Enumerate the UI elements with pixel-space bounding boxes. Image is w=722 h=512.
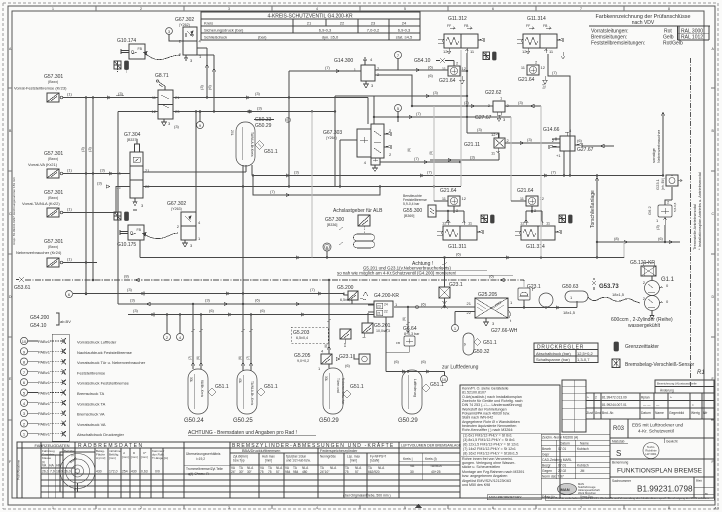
svg-text:(3): (3) bbox=[118, 91, 124, 96]
frame ruler numbers bottom bbox=[52, 506, 670, 510]
svg-text:Prüf-/Abnahme: Prüf-/Abnahme bbox=[17, 459, 21, 480]
wire hatch marks (pipe size) bbox=[191, 227, 410, 332]
svg-text:[mm]: [mm] bbox=[109, 456, 116, 460]
svg-text:Änderung: Änderung bbox=[660, 389, 674, 393]
svg-text:G14.66: G14.66 bbox=[543, 127, 560, 133]
icon silencer 5 bbox=[569, 215, 573, 223]
circled 7 node bbox=[395, 52, 402, 71]
svg-text:dyn. ≥5,0: dyn. ≥5,0 bbox=[322, 35, 339, 40]
svg-text:(3): (3) bbox=[527, 137, 533, 142]
svg-text:PABv1: PABv1 bbox=[38, 360, 51, 365]
frame bottom ruler ticks bbox=[96, 505, 624, 509]
svg-text:G11.312: G11.312 bbox=[448, 16, 467, 22]
wire y242 east bbox=[596, 236, 680, 244]
radbrems columns bbox=[94, 448, 96, 498]
svg-text:Abschaltdruck Druckregler: Abschaltdruck Druckregler bbox=[77, 432, 125, 437]
svg-text:(3): (3) bbox=[464, 100, 470, 105]
svg-text:(7): (7) bbox=[414, 156, 420, 161]
svg-text:5,9-0,4 bar: 5,9-0,4 bar bbox=[403, 202, 420, 206]
svg-text:(Bxxx): (Bxxx) bbox=[48, 245, 58, 249]
svg-text:Gegen: Gegen bbox=[542, 469, 552, 473]
test coupling G10.174 bbox=[117, 38, 145, 59]
svg-text:NLA: NLA bbox=[330, 466, 337, 470]
svg-text:4-Kr. Schutzventil: 4-Kr. Schutzventil bbox=[638, 429, 674, 434]
svg-text:Sachnummer: Sachnummer bbox=[612, 479, 632, 483]
sensor G51.1 on G50.29 bbox=[343, 384, 364, 398]
sensor G51.1 on G50.24 bbox=[208, 384, 229, 396]
svg-text:G51.1: G51.1 bbox=[264, 384, 278, 390]
svg-text:Früh. Rechte vorbehalten gemäß: Früh. Rechte vorbehalten gemäß DIN 34. W… bbox=[548, 496, 709, 500]
gray pipes bbox=[312, 50, 624, 288]
svg-text:G8.71: G8.71 bbox=[155, 73, 169, 79]
svg-text:und M50 des K98: und M50 des K98 bbox=[462, 483, 490, 487]
svg-text:(3): (3) bbox=[542, 84, 547, 90]
svg-text:G10.174: G10.174 bbox=[117, 38, 136, 44]
svg-text:(3) 8x1,5 FM1/12-PHLY = S: (3) 8x1,5 FM1/12-PHLY = St 8x1 bbox=[463, 438, 515, 442]
wire Y263 port 4 riser bbox=[195, 112, 197, 213]
svg-text:säcke u. Scheuerstellen: säcke u. Scheuerstellen bbox=[462, 465, 500, 469]
vehicle data cells bbox=[41, 454, 63, 456]
svg-text:R03: R03 bbox=[613, 426, 625, 432]
svg-text:24": 24" bbox=[231, 470, 236, 474]
svg-text:FUNKTIONSPLAN BREMSE: FUNKTIONSPLAN BREMSE bbox=[617, 468, 703, 475]
brake drum drawing bbox=[60, 454, 95, 489]
svg-text:G14.300: G14.300 bbox=[334, 58, 353, 64]
wire Kr23 supply to G8.71 port 11 bbox=[63, 91, 158, 99]
wire tank G50.25 risers + 20L column bbox=[238, 165, 253, 371]
svg-text:57: 57 bbox=[276, 470, 280, 474]
wire G7.304 port 21 to 20L tank bbox=[143, 165, 246, 172]
note Achtung (middle) bbox=[337, 261, 513, 276]
svg-text:(bar): (bar) bbox=[258, 35, 267, 40]
wire dryer port1 to G50.63 bbox=[455, 300, 577, 325]
svg-text:Vorratsdruck Tür u. Nebenve: Vorratsdruck Tür u. Nebenverbraucher bbox=[77, 360, 146, 365]
svg-text:nach VDV: nach VDV bbox=[632, 20, 655, 26]
svg-text:30L: 30L bbox=[324, 376, 328, 382]
svg-text:(3): (3) bbox=[477, 127, 483, 132]
title block main bbox=[541, 419, 714, 499]
pressure limiter G21.64 (VA) bbox=[439, 61, 467, 85]
svg-text:10: 10 bbox=[22, 339, 27, 344]
svg-text:(3): (3) bbox=[433, 90, 439, 95]
svg-text:Bnd.-Nr.: Bnd.-Nr. bbox=[602, 411, 614, 415]
svg-text:≈: ≈ bbox=[587, 396, 589, 400]
svg-text:57: 57 bbox=[355, 470, 359, 474]
svg-text:(6): (6) bbox=[428, 65, 434, 70]
svg-text:TA/NLA-Br.-Kreis: TA/NLA-Br.-Kreis bbox=[250, 381, 254, 406]
svg-text:A3: A3 bbox=[714, 506, 720, 511]
icon silencer 4 bbox=[491, 215, 495, 223]
svg-text:7,0-0,2: 7,0-0,2 bbox=[367, 28, 380, 33]
svg-text:(3): (3) bbox=[205, 298, 211, 303]
svg-text:(Bxxx): (Bxxx) bbox=[48, 196, 58, 200]
svg-text:(6): (6) bbox=[489, 274, 495, 279]
svg-text:Torschließanlage: Torschließanlage bbox=[590, 190, 596, 228]
svg-text:8: 8 bbox=[668, 7, 670, 11]
svg-text:(Y262): (Y262) bbox=[179, 23, 190, 27]
svg-text:21: 21 bbox=[377, 312, 381, 316]
svg-text:Kreis (l): Kreis (l) bbox=[425, 457, 437, 461]
svg-text:26,0: 26,0 bbox=[42, 470, 49, 474]
svg-text:(3): (3) bbox=[80, 146, 85, 152]
wire bus3 y304 bbox=[118, 298, 374, 306]
svg-text:G53.61: G53.61 bbox=[14, 285, 31, 291]
svg-text:(3): (3) bbox=[133, 308, 139, 313]
svg-text:(1): (1) bbox=[67, 92, 73, 97]
small grid above title area bbox=[562, 380, 586, 432]
wire G6.64 link bbox=[386, 346, 409, 352]
svg-text:Datum: Datum bbox=[641, 411, 651, 415]
pressure limiter G21.64 (TA top) bbox=[518, 60, 548, 90]
air filter G5.121-KR bbox=[630, 260, 656, 276]
svg-text:Grenzzeittakter: Grenzzeittakter bbox=[625, 344, 659, 350]
ALB valve G7.304 [B337] bbox=[117, 132, 151, 210]
air tank G50.63 bbox=[562, 284, 588, 302]
legend row 7 Feststellbremse bbox=[20, 368, 106, 375]
svg-text:2: 2 bbox=[140, 7, 142, 11]
wire G23.1 drop to main line bbox=[442, 258, 447, 308]
svg-text:F: F bbox=[9, 460, 11, 464]
svg-text:MAN: MAN bbox=[561, 487, 570, 492]
svg-text:7: 7 bbox=[580, 7, 582, 11]
svg-text:φ(t)-C*mm : R: φ(t)-C*mm : R bbox=[188, 472, 209, 476]
svg-text:ab.BV: ab.BV bbox=[60, 319, 71, 324]
svg-text:BBA/Druckluftbremsen: BBA/Druckluftbremsen bbox=[242, 449, 280, 453]
svg-text:430: 430 bbox=[96, 470, 102, 474]
note 600ccm bbox=[611, 317, 673, 329]
svg-text:3: 3 bbox=[228, 506, 230, 510]
node circled 9 bbox=[197, 111, 204, 129]
wire G8.71 port 23 eastward to G67.303 bbox=[173, 96, 374, 187]
svg-text:12: 12 bbox=[541, 65, 546, 70]
svg-text:(7): (7) bbox=[551, 170, 557, 175]
svg-text:07.01: 07.01 bbox=[558, 447, 566, 451]
svg-text:172,0: 172,0 bbox=[109, 470, 118, 474]
wire tank G50.29a riser bbox=[324, 280, 359, 368]
svg-text:Bremsbelag-Verschleiß-Sensor: Bremsbelag-Verschleiß-Sensor bbox=[625, 362, 695, 368]
svg-text:Vorrat-VA (Kr21): Vorrat-VA (Kr21) bbox=[28, 162, 58, 167]
compressor G1.1 bbox=[643, 276, 675, 311]
svg-text:(1): (1) bbox=[67, 168, 73, 173]
svg-text:G50.63: G50.63 bbox=[562, 284, 579, 290]
test point G5.201 bbox=[362, 323, 391, 337]
svg-text:PABv1: PABv1 bbox=[38, 432, 51, 437]
svg-text:Nachlaufdruck Feststellbremse: Nachlaufdruck Feststellbremse bbox=[77, 350, 133, 355]
svg-text:Zust: Zust bbox=[587, 411, 593, 415]
legend row 1 Abschaltdruck Druckregler bbox=[20, 430, 124, 437]
svg-text:HA: HA bbox=[49, 464, 54, 468]
frame ruler numbers top bbox=[52, 7, 670, 11]
wire G4.200 internal links bbox=[368, 305, 374, 323]
svg-text:Luftfederung: Luftfederung bbox=[413, 379, 417, 397]
svg-text:8: 8 bbox=[668, 506, 670, 510]
svg-text:zur Luftfederung: zur Luftfederung bbox=[442, 365, 479, 371]
svg-text:G54.10: G54.10 bbox=[30, 323, 47, 329]
svg-text:(7) 14x2 FM1/12-PHLY = S: (7) 14x2 FM1/12-PHLY = St 12x1 bbox=[463, 447, 516, 451]
icon electric connector bbox=[114, 61, 121, 72]
legend row 6 Vorratsdruck Feststellbremse bbox=[20, 379, 129, 386]
svg-text:G27.66-WH: G27.66-WH bbox=[491, 328, 518, 334]
wire supply bus to G22.62 bbox=[412, 100, 493, 108]
solenoid valve G67.302 (Y263) bbox=[167, 201, 201, 248]
svg-text:Name: Name bbox=[580, 442, 589, 446]
svg-text:9,0+0,2: 9,0+0,2 bbox=[297, 359, 309, 363]
test fitting G54.10 bbox=[414, 58, 449, 64]
wire hose compressor to tank bbox=[588, 297, 640, 303]
svg-text:30: 30 bbox=[410, 470, 414, 474]
test coupling G10.175 bbox=[117, 225, 144, 248]
svg-text:G54.200: G54.200 bbox=[30, 315, 49, 321]
wire dryer port22 to circled 1 bbox=[455, 311, 475, 313]
svg-text:PABv1: PABv1 bbox=[38, 370, 51, 375]
svg-text:254: 254 bbox=[122, 470, 128, 474]
svg-text:FAHRZEUGDATEN: FAHRZEUGDATEN bbox=[34, 443, 69, 448]
svg-text:(3): (3) bbox=[255, 91, 261, 96]
svg-text:G5.200: G5.200 bbox=[337, 285, 354, 291]
wire cable from G10.175 to Y263 bbox=[144, 233, 178, 239]
wire Y262 exhaust drops bbox=[197, 48, 216, 112]
svg-text:BREMSZYLINDER-ABMESSUNGEN UND: BREMSZYLINDER-ABMESSUNGEN UND -KRÄFTE bbox=[232, 442, 394, 449]
node circled 6 bbox=[66, 291, 73, 298]
svg-text:(3): (3) bbox=[87, 146, 92, 152]
four circuit protection valve G4.200-KR bbox=[374, 293, 399, 317]
boundary line Trennstelle (dash-dot) bbox=[690, 58, 692, 388]
svg-text:≈: ≈ bbox=[670, 396, 672, 400]
svg-text:G50.32: G50.32 bbox=[473, 349, 490, 355]
wire G8.71 port 21 eastward bbox=[173, 91, 368, 99]
wire main line y307 G4.200 to dryer bbox=[360, 292, 475, 333]
svg-text:430: 430 bbox=[131, 470, 137, 474]
svg-text:G23.1: G23.1 bbox=[655, 178, 660, 190]
table revision block (top of title block) bbox=[562, 380, 714, 432]
svg-text:+1: +1 bbox=[556, 153, 561, 158]
two-way valve G21.11 bbox=[464, 132, 510, 156]
svg-text:(6): (6) bbox=[428, 73, 434, 78]
svg-text:Schaltspanne (bar): Schaltspanne (bar) bbox=[536, 357, 570, 362]
air tank G50.24 bbox=[184, 369, 208, 424]
legend Grenzzeittakter bbox=[614, 342, 659, 351]
svg-text:24: 24 bbox=[402, 21, 407, 26]
svg-text:Nenngröße: Nenngröße bbox=[320, 455, 336, 459]
svg-text:Schließdruck: Schließdruck bbox=[204, 35, 227, 40]
svg-text:(Bxxx): (Bxxx) bbox=[48, 157, 58, 161]
svg-text:Kreis: Kreis bbox=[204, 21, 213, 26]
svg-text:ACHTUNG - Bremsdaten und A: ACHTUNG - Bremsdaten und Angaben pro Rad… bbox=[188, 430, 297, 436]
svg-text:FB: FB bbox=[138, 47, 143, 51]
svg-text:10,0±0,3: 10,0±0,3 bbox=[376, 329, 390, 333]
svg-text:(3): (3) bbox=[655, 224, 660, 230]
svg-text:0,63: 0,63 bbox=[141, 470, 148, 474]
svg-text:FB: FB bbox=[543, 24, 548, 28]
node circled 3 (port marker) bbox=[166, 28, 183, 41]
svg-text:7: 7 bbox=[580, 506, 582, 510]
svg-text:VA/Br.-Kreis: VA/Br.-Kreis bbox=[200, 380, 204, 398]
wire node stubs circled 2 and 4 bbox=[167, 315, 180, 334]
svg-text:R1: R1 bbox=[697, 370, 705, 376]
svg-text:(6): (6) bbox=[421, 359, 427, 364]
svg-text:Bezgr: Bezgr bbox=[542, 464, 552, 468]
icon electric connector 3 bbox=[483, 52, 490, 60]
svg-text:bzw. angegebenen Angaben: bzw. angegebenen Angaben bbox=[462, 474, 507, 478]
svg-text:(7): (7) bbox=[325, 65, 331, 70]
circled 5 node bbox=[395, 105, 402, 123]
svg-text:22: 22 bbox=[340, 21, 345, 26]
svg-text:12: 12 bbox=[117, 185, 122, 190]
svg-text:(7): (7) bbox=[416, 111, 422, 116]
svg-text:Kubisch: Kubisch bbox=[577, 447, 589, 451]
wire G67.303 lower port (7) east bbox=[380, 156, 461, 164]
pressure limiter G21.64 (lower right) bbox=[517, 188, 545, 213]
svg-text:(1): (1) bbox=[67, 207, 73, 212]
svg-text:(8): (8) bbox=[614, 236, 620, 241]
svg-text:A [cm²]: A [cm²] bbox=[96, 456, 106, 460]
label zur Luftfederung bbox=[394, 359, 479, 371]
svg-text:G51.1: G51.1 bbox=[350, 384, 364, 390]
relay valve G11.311 bbox=[437, 220, 483, 251]
svg-text:MAN-PROPRIETARY: MAN-PROPRIETARY bbox=[489, 496, 522, 500]
svg-text:G11.314: G11.314 bbox=[527, 16, 546, 22]
svg-text:4-KREIS-SCHUTZVENTIL G4.200-K: 4-KREIS-SCHUTZVENTIL G4.200-KR bbox=[267, 14, 353, 20]
svg-text:Federspeicherzylinder: Federspeicherzylinder bbox=[320, 449, 358, 453]
test point G57.301 Nebenverbraucher (Kr24) bbox=[16, 239, 97, 267]
svg-text:LUFTVOLUMEN DER BREMSANLAGE: LUFTVOLUMEN DER BREMSANLAGE bbox=[401, 444, 462, 448]
svg-text:LW 3001: LW 3001 bbox=[646, 452, 657, 456]
wire long bus y186 bbox=[143, 186, 461, 188]
svg-text:6,5±0,4: 6,5±0,4 bbox=[296, 336, 308, 340]
small boxes above revision right bbox=[655, 380, 714, 393]
svg-text:1: 1 bbox=[52, 506, 54, 510]
svg-text:PABv1: PABv1 bbox=[38, 421, 51, 426]
svg-text:23: 23 bbox=[377, 305, 381, 309]
frame ruler letters sides bbox=[9, 47, 715, 464]
wire tank G50.24 risers bbox=[188, 304, 203, 369]
node circled 1 bbox=[452, 325, 459, 332]
svg-text:G23.1: G23.1 bbox=[339, 354, 353, 360]
svg-text:(3): (3) bbox=[470, 155, 476, 160]
relay valve G11.314 (lower) bbox=[515, 220, 561, 251]
svg-text:07.01: 07.01 bbox=[558, 464, 566, 468]
svg-text:Rot/Gelb: Rot/Gelb bbox=[663, 41, 683, 47]
svg-text:Gewicht: Gewicht bbox=[666, 440, 678, 444]
svg-text:Blatt: Blatt bbox=[696, 479, 702, 483]
check valve G23.1 (after dryer) bbox=[518, 284, 541, 300]
svg-text:≈: ≈ bbox=[692, 403, 694, 407]
svg-text:Bezeichnung (A)ustauschteile: Bezeichnung (A)ustauschteile bbox=[657, 382, 697, 386]
icon electric connector 4 bbox=[481, 215, 488, 223]
svg-text:(6): (6) bbox=[658, 236, 664, 241]
table Fahrzeugdaten / Radbremsdaten (bottom left) bbox=[17, 442, 461, 498]
svg-text:[mm]: [mm] bbox=[131, 455, 138, 459]
svg-text:18x1,5: 18x1,5 bbox=[612, 292, 625, 297]
svg-text:Datum: Datum bbox=[560, 442, 570, 446]
svg-text:30L: 30L bbox=[189, 377, 193, 383]
wire G11.314 port 12 drop (7) bbox=[548, 54, 571, 176]
note ACHTUNG Bremsdaten bbox=[188, 430, 316, 436]
wire G54.10 stub bbox=[436, 61, 454, 67]
pressure switch G6.2 bbox=[647, 200, 677, 231]
sensor G51.1 on Luftfederung tank bbox=[422, 382, 444, 392]
svg-text:26,0: 26,0 bbox=[64, 470, 71, 474]
node circled B bbox=[323, 243, 331, 251]
wire Kr24 stub bbox=[63, 262, 87, 264]
svg-text:JM: JM bbox=[580, 469, 585, 473]
wire G67.303 pilot from bus bbox=[340, 140, 357, 187]
svg-text:(6): (6) bbox=[394, 359, 400, 364]
wire sonstige Nebenverbraucher riser bbox=[661, 112, 665, 176]
svg-text:Gepr: Gepr bbox=[542, 453, 550, 457]
air tank G50.25 bbox=[233, 370, 257, 424]
air tank G50.29 (Tueren und Nebenverbraucher) bbox=[319, 368, 345, 424]
svg-text:G50.29: G50.29 bbox=[398, 418, 418, 424]
svg-text:(6): (6) bbox=[456, 252, 462, 257]
title block name table bbox=[541, 434, 610, 498]
svg-text:2: 2 bbox=[595, 396, 597, 400]
check valve G23.1 (Nebenverbraucher) bbox=[339, 354, 370, 368]
svg-text:3: 3 bbox=[228, 7, 230, 11]
wire G21.64 rear links bbox=[434, 201, 542, 222]
svg-text:Bremsdruck VA: Bremsdruck VA bbox=[77, 412, 105, 417]
wire G14.66 output east bbox=[582, 144, 614, 147]
svg-text:40+25: 40+25 bbox=[431, 470, 441, 474]
svg-text:PABv1: PABv1 bbox=[38, 339, 51, 344]
svg-text:G50.29: G50.29 bbox=[319, 418, 339, 424]
svg-text:G50.25: G50.25 bbox=[233, 418, 253, 424]
test point G57.301 Vorrat-VA (Kr21) bbox=[28, 151, 107, 178]
wire bus y257 bbox=[140, 240, 624, 259]
svg-text:(7): (7) bbox=[310, 287, 316, 292]
wire pilot line to G11.312 port 11 bbox=[374, 53, 467, 98]
svg-text:984: 984 bbox=[285, 470, 291, 474]
svg-text:* Installationsplan Antriebs: * Installationsplan Antriebs u. Antriebs… bbox=[697, 172, 702, 250]
frame top ruler ticks bbox=[96, 6, 624, 11]
svg-text:24: 24 bbox=[384, 303, 388, 307]
svg-text:(3): (3) bbox=[130, 298, 136, 303]
svg-text:B: B bbox=[326, 245, 329, 250]
svg-text:5: 5 bbox=[404, 506, 406, 510]
svg-text:und 1/2 Hub bzw.: und 1/2 Hub bzw. bbox=[286, 459, 311, 463]
wire Kr22 to G7.304 port 12 bbox=[63, 181, 130, 213]
air tank G50.29 (Luftfederung) bbox=[398, 370, 422, 424]
svg-text:984: 984 bbox=[293, 470, 299, 474]
test point G57.301 Vorrat-TA/NLA (Kr22) bbox=[22, 190, 110, 217]
svg-text:G23.1: G23.1 bbox=[527, 284, 541, 290]
svg-text:S: S bbox=[616, 449, 621, 458]
svg-text:662/920: 662/920 bbox=[368, 470, 380, 474]
svg-text:G25.205: G25.205 bbox=[478, 292, 497, 298]
svg-text:G54.10: G54.10 bbox=[414, 58, 431, 64]
svg-text:5: 5 bbox=[404, 7, 406, 11]
wire compressor to filter column bbox=[651, 258, 653, 267]
note bottom protection strip bbox=[545, 495, 714, 501]
svg-text:23: 23 bbox=[371, 21, 376, 26]
svg-text:[l,daN]: [l,daN] bbox=[370, 459, 379, 463]
svg-text:Vorrat-TA/NLA (Kr22): Vorrat-TA/NLA (Kr22) bbox=[22, 201, 60, 206]
svg-text:(3): (3) bbox=[127, 287, 133, 292]
svg-text:30": 30" bbox=[239, 470, 244, 474]
svg-text:DRUCKREGLER: DRUCKREGLER bbox=[537, 345, 584, 351]
wire G22.62 port 2 east bbox=[505, 100, 541, 108]
sensor G51.1 on 20L tank bbox=[255, 141, 278, 156]
svg-text:( bei Originalantriebe, 500 mm: ( bei Originalantriebe, 500 mm ) bbox=[343, 494, 391, 498]
svg-text:VA: VA bbox=[410, 464, 415, 468]
svg-text:(6): (6) bbox=[345, 363, 351, 368]
wire G21.64 VA through line bbox=[460, 53, 499, 138]
svg-text:22: 22 bbox=[467, 310, 472, 315]
wire left bus verticals bbox=[80, 98, 94, 295]
svg-text:PABv1: PABv1 bbox=[38, 411, 51, 416]
hand brake valve G8.71 bbox=[152, 73, 181, 129]
svg-text:Vorratsdruck Luftfeder: Vorratsdruck Luftfeder bbox=[77, 340, 117, 345]
